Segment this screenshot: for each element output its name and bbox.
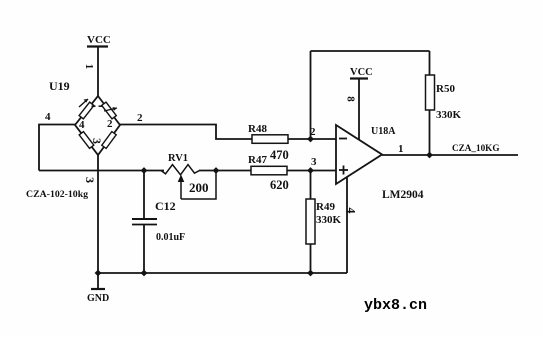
junction ground rail / R49 (307, 270, 314, 277)
svg-text:0.01uF: 0.01uF (156, 232, 185, 243)
svg-text:RV1: RV1 (168, 153, 188, 164)
svg-text:R48: R48 (248, 123, 267, 135)
svg-text:4: 4 (79, 119, 85, 131)
svg-text:CZA-102-10kg: CZA-102-10kg (26, 189, 88, 200)
junction pin3/R49 (307, 167, 314, 174)
svg-text:GND: GND (87, 293, 109, 304)
svg-text:620: 620 (270, 178, 289, 192)
svg-text:U19: U19 (49, 79, 70, 93)
wire feedback vertical (310, 51, 312, 139)
resistor R47 (248, 154, 289, 192)
wire bridge pin4 to net (39, 125, 75, 171)
svg-text:R49: R49 (316, 201, 335, 213)
junction C12/main (141, 167, 148, 174)
wire top to R50 (429, 51, 431, 75)
capacitor C12 (132, 171, 185, 274)
power VCC (op-amp pin 8) (345, 67, 373, 140)
wire bridge pin3 to ground rail (97, 155, 99, 273)
junction RV1 wiper/main (213, 167, 220, 174)
resistor R48 (248, 123, 289, 162)
wire op-amp pin4 to ground rail (346, 177, 348, 273)
svg-text:ybx8.cn: ybx8.cn (364, 297, 427, 314)
potentiometer RV1 (161, 153, 216, 199)
svg-text:1: 1 (398, 143, 404, 155)
op-amp U18A (336, 125, 424, 201)
svg-text:1: 1 (83, 64, 95, 70)
wire output (382, 154, 518, 156)
ground (87, 273, 109, 304)
wire RV1 to R47 (199, 170, 251, 172)
svg-text:VCC: VCC (87, 34, 111, 46)
junction pin2/feedback (307, 136, 314, 143)
svg-text:3: 3 (83, 177, 97, 183)
wire R48 to pin2 (288, 138, 336, 140)
svg-text:U18A: U18A (371, 126, 396, 137)
svg-text:C12: C12 (155, 199, 176, 213)
svg-text:470: 470 (270, 148, 289, 162)
wire VCC to bridge pin 1 (97, 47, 99, 97)
svg-text:R47: R47 (248, 154, 267, 166)
wire feedback top horizontal (311, 50, 430, 52)
wire R50 to output (429, 110, 431, 155)
svg-text:330K: 330K (316, 214, 342, 226)
wire main horizontal (IN+ net) (39, 170, 164, 172)
wire R47 to pin3 (287, 170, 336, 172)
svg-text:3: 3 (311, 156, 317, 168)
resistor R50 (426, 75, 462, 121)
svg-text:R50: R50 (436, 83, 455, 95)
wire ground rail (98, 272, 347, 274)
svg-text:4: 4 (45, 111, 51, 123)
svg-text:LM2904: LM2904 (382, 189, 424, 201)
junction ground rail / C12 (141, 270, 148, 277)
load cell bridge U19 (49, 79, 120, 155)
svg-text:VCC: VCC (350, 67, 373, 78)
power VCC (bridge supply) (87, 34, 111, 47)
svg-text:3: 3 (90, 138, 102, 144)
junction output/R50 (426, 152, 433, 159)
svg-text:2: 2 (137, 112, 143, 124)
svg-text:2: 2 (107, 118, 113, 130)
junction ground rail / GND (95, 270, 102, 277)
wire bridge pin2 to R48 (120, 125, 252, 140)
svg-text:CZA_10KG: CZA_10KG (452, 143, 499, 153)
svg-text:8: 8 (345, 96, 357, 102)
svg-text:200: 200 (189, 180, 209, 195)
svg-text:330K: 330K (436, 109, 462, 121)
resistor R49 (306, 171, 342, 274)
